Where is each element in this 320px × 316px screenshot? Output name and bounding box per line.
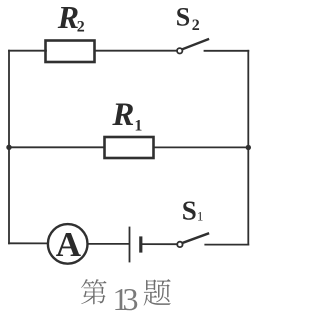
svg-text:1: 1 — [134, 117, 142, 134]
svg-text:S: S — [182, 195, 197, 225]
svg-text:S: S — [176, 3, 190, 32]
svg-text:1: 1 — [197, 209, 204, 224]
svg-text:A: A — [56, 225, 82, 264]
svg-text:2: 2 — [77, 19, 85, 36]
svg-text:R: R — [57, 0, 79, 35]
svg-text:2: 2 — [192, 17, 200, 34]
svg-text:R: R — [111, 97, 134, 133]
svg-text:3: 3 — [123, 281, 139, 316]
